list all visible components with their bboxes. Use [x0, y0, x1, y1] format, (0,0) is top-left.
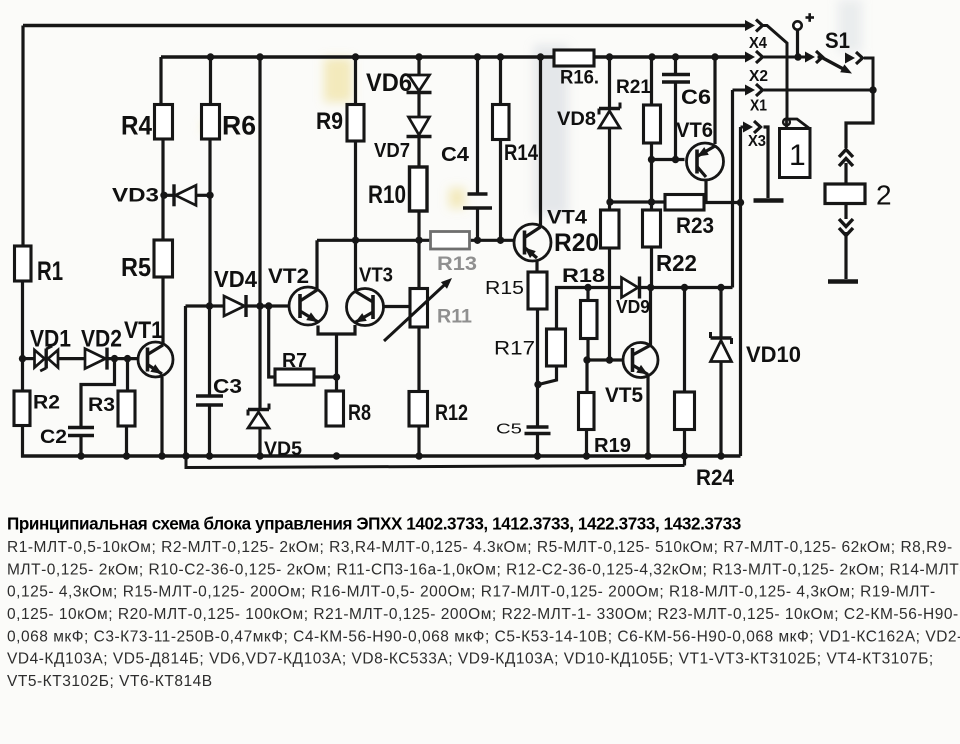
svg-text:X4: X4 — [749, 35, 767, 52]
svg-text:R12: R12 — [435, 400, 468, 425]
svg-text:R14: R14 — [504, 140, 539, 165]
svg-text:VD4-КД103А; VD5-Д814Б; VD6,VD7: VD4-КД103А; VD5-Д814Б; VD6,VD7-КД103А; V… — [7, 651, 934, 668]
svg-text:C2: C2 — [40, 427, 67, 448]
svg-text:R19: R19 — [594, 434, 631, 457]
svg-text:VD2: VD2 — [81, 326, 122, 353]
svg-text:VD6: VD6 — [366, 70, 412, 97]
svg-text:R7: R7 — [282, 350, 307, 372]
svg-text:VD4: VD4 — [214, 266, 257, 292]
svg-text:VT5-КТ3102Б; VT6-КТ814В: VT5-КТ3102Б; VT6-КТ814В — [7, 673, 213, 690]
svg-text:VD7: VD7 — [374, 139, 410, 162]
svg-text:R17: R17 — [494, 339, 535, 360]
svg-text:VT1: VT1 — [124, 317, 163, 344]
svg-text:Принципиальная схема блока упр: Принципиальная схема блока управления ЭП… — [7, 515, 741, 534]
svg-text:R20: R20 — [554, 230, 599, 257]
svg-text:R15: R15 — [485, 277, 524, 298]
svg-text:R13: R13 — [437, 254, 477, 275]
svg-text:0,125- 10кОм; R20-МЛТ-0,125- 1: 0,125- 10кОм; R20-МЛТ-0,125- 100кОм; R21… — [7, 606, 959, 623]
svg-text:VD1: VD1 — [30, 326, 71, 353]
svg-text:C3: C3 — [213, 375, 242, 398]
svg-text:R5: R5 — [121, 252, 151, 282]
svg-text:R10: R10 — [368, 182, 406, 209]
svg-text:R2: R2 — [33, 392, 60, 414]
svg-text:R23: R23 — [676, 213, 714, 238]
svg-text:VD8: VD8 — [557, 109, 596, 130]
svg-text:VD10: VD10 — [746, 342, 801, 367]
svg-text:VT5: VT5 — [605, 384, 643, 407]
svg-text:VD9: VD9 — [616, 297, 650, 317]
svg-text:R6: R6 — [222, 111, 256, 141]
svg-text:R22: R22 — [656, 250, 697, 276]
svg-text:R18: R18 — [562, 266, 605, 287]
svg-text:R21: R21 — [616, 76, 651, 98]
svg-text:R1-МЛТ-0,5-10кОм; R2-МЛТ-0,125: R1-МЛТ-0,5-10кОм; R2-МЛТ-0,125- 2кОм; R3… — [7, 539, 953, 556]
svg-text:R3: R3 — [88, 394, 115, 416]
svg-text:X3: X3 — [748, 133, 766, 150]
svg-text:VT4: VT4 — [547, 208, 587, 229]
svg-text:VT3: VT3 — [359, 265, 393, 287]
svg-text:C4: C4 — [441, 143, 470, 166]
svg-text:VD5: VD5 — [264, 439, 302, 460]
svg-text:R4: R4 — [121, 111, 152, 141]
svg-text:R24: R24 — [696, 465, 735, 490]
svg-text:1: 1 — [789, 139, 806, 172]
svg-text:C6: C6 — [681, 86, 711, 109]
svg-text:R1: R1 — [37, 256, 63, 286]
svg-text:R8: R8 — [348, 400, 371, 425]
svg-text:0,125- 4,3кОм; R15-МЛТ-0,125-: 0,125- 4,3кОм; R15-МЛТ-0,125- 200Ом; R16… — [7, 584, 936, 601]
svg-text:R9: R9 — [316, 108, 343, 135]
svg-text:X2: X2 — [749, 68, 768, 85]
svg-text:R11: R11 — [437, 307, 472, 328]
svg-text:МЛТ-0,125- 2кОм; R10-С2-36-0,1: МЛТ-0,125- 2кОм; R10-С2-36-0,125- 2кОм; … — [7, 561, 960, 578]
svg-text:C5: C5 — [496, 422, 522, 438]
svg-text:2: 2 — [876, 180, 892, 211]
svg-text:0,068 мкФ; С3-К73-11-250В-0,47: 0,068 мкФ; С3-К73-11-250В-0,47мкФ; С4-КМ… — [7, 628, 960, 645]
svg-text:S1: S1 — [825, 28, 850, 53]
svg-text:VT2: VT2 — [268, 265, 309, 288]
svg-text:VD3: VD3 — [112, 186, 159, 207]
svg-text:R16.: R16. — [560, 68, 599, 89]
svg-text:X1: X1 — [750, 98, 767, 115]
svg-text:VT6: VT6 — [676, 119, 713, 142]
